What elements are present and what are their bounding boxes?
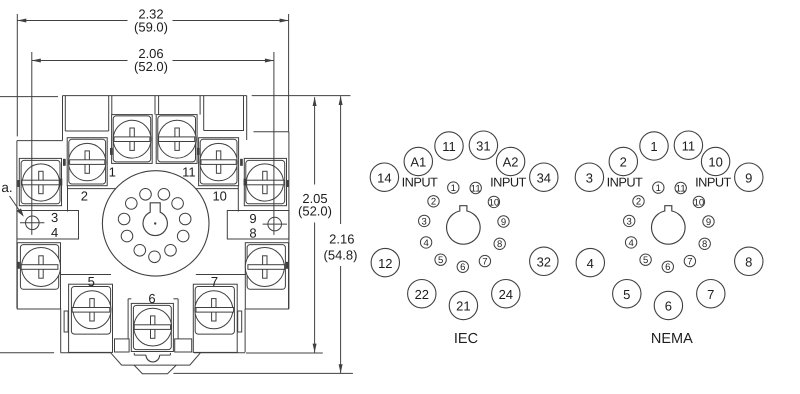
svg-text:9: 9 [249, 211, 256, 226]
svg-text:10: 10 [212, 188, 226, 203]
svg-text:4: 4 [423, 238, 428, 249]
svg-text:10: 10 [694, 197, 705, 208]
svg-text:21: 21 [456, 299, 470, 314]
svg-text:8: 8 [497, 239, 502, 250]
svg-text:14: 14 [377, 170, 391, 185]
svg-text:7: 7 [482, 257, 487, 268]
svg-text:A1: A1 [410, 155, 426, 170]
svg-text:2.16: 2.16 [329, 232, 354, 247]
svg-text:2: 2 [620, 155, 627, 170]
svg-text:NEMA: NEMA [651, 331, 693, 347]
svg-text:(52.0): (52.0) [298, 203, 332, 218]
svg-text:INPUT: INPUT [490, 174, 526, 189]
svg-text:11: 11 [182, 165, 196, 180]
svg-text:11: 11 [676, 183, 686, 194]
svg-text:INPUT: INPUT [402, 174, 438, 189]
svg-text:6: 6 [665, 299, 672, 314]
svg-text:1: 1 [109, 165, 116, 180]
svg-text:31: 31 [476, 138, 490, 153]
svg-text:IEC: IEC [454, 331, 478, 347]
svg-text:4: 4 [587, 256, 594, 271]
svg-text:a.: a. [1, 180, 12, 195]
svg-text:7: 7 [707, 287, 714, 302]
svg-text:9: 9 [706, 217, 711, 228]
svg-text:9: 9 [501, 217, 506, 228]
svg-text:4: 4 [51, 225, 58, 240]
svg-text:32: 32 [537, 255, 551, 270]
svg-text:24: 24 [499, 287, 513, 302]
svg-text:1: 1 [656, 183, 661, 194]
svg-text:3: 3 [51, 210, 58, 225]
svg-text:3: 3 [586, 170, 593, 185]
svg-text:5: 5 [643, 255, 648, 266]
svg-text:1: 1 [650, 139, 657, 154]
svg-text:5: 5 [88, 274, 95, 289]
svg-text:2: 2 [636, 197, 641, 208]
svg-text:(52.0): (52.0) [134, 59, 168, 74]
svg-text:A2: A2 [503, 155, 519, 170]
svg-text:4: 4 [628, 238, 633, 249]
svg-text:INPUT: INPUT [695, 174, 731, 189]
svg-text:8: 8 [745, 255, 752, 270]
svg-text:11: 11 [442, 139, 456, 154]
svg-text:34: 34 [537, 170, 551, 185]
svg-text:3: 3 [627, 216, 632, 227]
svg-text:2: 2 [431, 197, 436, 208]
svg-text:(59.0): (59.0) [134, 20, 168, 35]
svg-text:12: 12 [378, 256, 392, 271]
svg-text:10: 10 [708, 155, 722, 170]
svg-text:11: 11 [682, 138, 696, 153]
svg-text:(54.8): (54.8) [324, 248, 358, 263]
svg-text:8: 8 [249, 226, 256, 241]
svg-text:10: 10 [489, 197, 500, 208]
svg-text:6: 6 [148, 291, 155, 306]
svg-text:9: 9 [745, 170, 752, 185]
svg-text:5: 5 [623, 287, 630, 302]
svg-text:5: 5 [438, 255, 443, 266]
svg-text:1: 1 [451, 183, 456, 194]
svg-text:22: 22 [415, 287, 429, 302]
svg-text:3: 3 [422, 216, 427, 227]
svg-text:6: 6 [460, 262, 465, 273]
svg-text:INPUT: INPUT [607, 174, 643, 189]
svg-text:11: 11 [471, 183, 481, 194]
svg-text:7: 7 [211, 274, 218, 289]
svg-text:7: 7 [687, 257, 692, 268]
svg-text:8: 8 [702, 239, 707, 250]
svg-text:2: 2 [81, 188, 88, 203]
svg-text:6: 6 [665, 262, 670, 273]
